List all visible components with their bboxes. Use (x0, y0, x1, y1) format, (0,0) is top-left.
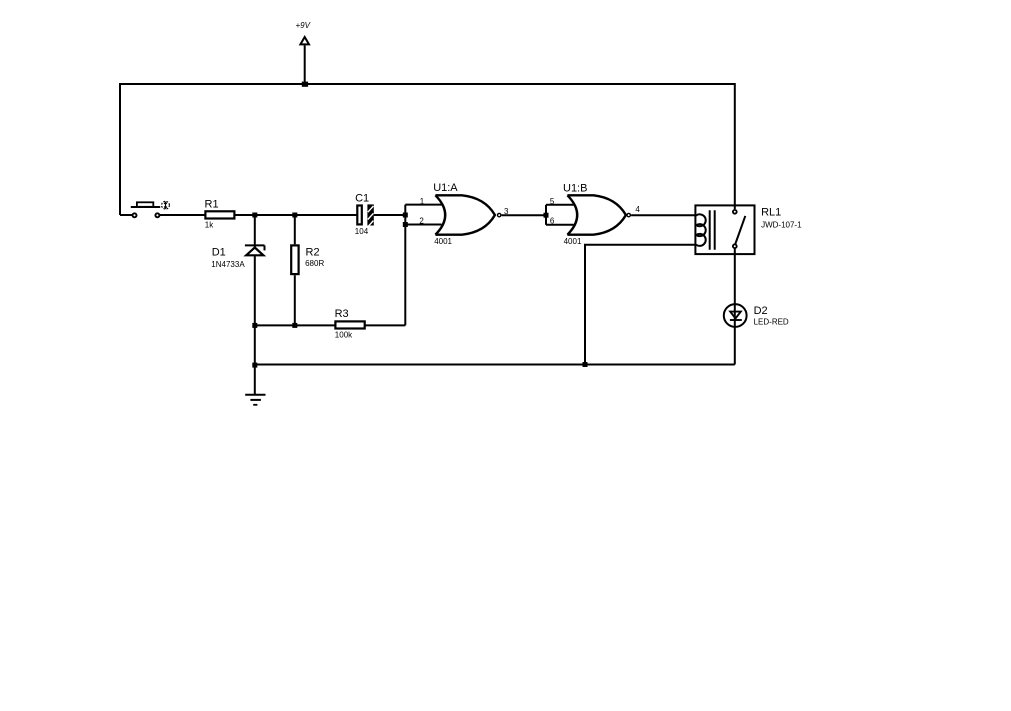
svg-text:LED-RED: LED-RED (754, 318, 789, 327)
svg-text:680R: 680R (305, 259, 324, 268)
relay core bars (710, 210, 715, 249)
svg-text:1k: 1k (205, 221, 214, 230)
LED D2 (724, 304, 747, 327)
svg-text:2: 2 (419, 217, 424, 226)
relay coil arcs (696, 214, 706, 246)
resistor R2 (291, 245, 298, 274)
svg-text:1: 1 (420, 197, 425, 206)
wire U1:B output to relay coil (631, 214, 695, 216)
wire U1:A output to U1:B input (502, 214, 546, 216)
op-amp U1:B NOR gate body (567, 195, 626, 234)
svg-text:4001: 4001 (564, 237, 582, 246)
node junction feedback / bottom rail (583, 362, 588, 367)
svg-text:100k: 100k (335, 331, 353, 340)
svg-text:104: 104 (355, 227, 369, 236)
capacitor C1 left plate (357, 206, 362, 225)
capacitor C1 right plate hatched (367, 204, 373, 226)
relay switch pole circle (733, 210, 737, 214)
wire D1 branch vertical down to ground (254, 215, 256, 395)
wire pushbutton to R1 (159, 214, 205, 216)
relay RL1 box (695, 205, 754, 254)
node junction R1/D1 (252, 213, 257, 218)
node junction R2 top (292, 213, 297, 218)
pushbutton cap (137, 202, 153, 207)
wire pin 1 stub (405, 204, 441, 206)
svg-text:RL1: RL1 (761, 206, 781, 218)
wire R3 right lead up to gate pin 2 (365, 324, 405, 326)
node junction ground (252, 363, 257, 368)
svg-text:U1:B: U1:B (563, 182, 587, 194)
wire left stub to pushbutton (120, 214, 132, 216)
node junction R2 bottom (292, 323, 297, 328)
svg-text:U1:A: U1:A (433, 182, 458, 194)
wire pin 5 stub (546, 204, 574, 206)
svg-text:R1: R1 (205, 199, 219, 211)
wire R1 to C1 (236, 214, 357, 216)
op-amp U1:A output bubble (498, 213, 501, 216)
wire U1:A input vertical (pins 1-2 tie, down to R3) (404, 205, 406, 326)
node power junction dot (302, 82, 308, 87)
svg-text:1N4733A: 1N4733A (211, 260, 245, 269)
svg-text:D2: D2 (754, 305, 768, 317)
wire U1:B input vertical (545, 205, 547, 225)
pushbutton actuator circle (162, 201, 170, 209)
wire R2 top lead (294, 215, 296, 244)
power +9V symbol (300, 37, 309, 84)
resistor R3 (335, 321, 364, 328)
node junction U1:B input (544, 213, 549, 218)
svg-text:3: 3 (504, 207, 509, 216)
node junction D1 bottom (252, 323, 257, 328)
op-amp U1:A NOR gate body (435, 195, 495, 234)
node junction pin2 (403, 222, 408, 227)
wire bottom net D1 to R3 (255, 324, 335, 326)
wire R2 bottom lead (294, 275, 296, 325)
svg-text:R2: R2 (306, 247, 320, 259)
wire relay contact down through LED to bottom rail (734, 248, 736, 365)
node junction C1 input (403, 213, 408, 218)
ground symbol (245, 395, 265, 405)
relay switch contact circle (733, 244, 737, 248)
svg-text:6: 6 (550, 217, 555, 226)
svg-text:4001: 4001 (434, 237, 452, 246)
resistor R1 (205, 211, 234, 218)
wire C1 to U1:A input (374, 214, 406, 216)
svg-text:R3: R3 (335, 308, 349, 320)
diode D1 zener (245, 245, 265, 255)
wire relay coil return (feedback) (585, 245, 695, 365)
svg-text:D1: D1 (212, 247, 226, 259)
op-amp U1:B output bubble (627, 213, 630, 216)
svg-text:4: 4 (635, 205, 640, 214)
svg-text:5: 5 (550, 197, 555, 206)
wire top rail from top-left corner to relay top pin (120, 84, 735, 215)
pushbutton bar (131, 206, 160, 208)
pushbutton SW terminals (133, 213, 137, 217)
svg-text:JWD-107-1: JWD-107-1 (761, 221, 802, 230)
wire bottom rail ground to LED (255, 364, 735, 366)
wire pin 6 stub (546, 224, 574, 226)
relay switch arm (735, 216, 745, 244)
svg-text:C1: C1 (355, 192, 369, 204)
svg-text:+9V: +9V (296, 21, 311, 30)
wire pin 2 stub (405, 224, 441, 226)
